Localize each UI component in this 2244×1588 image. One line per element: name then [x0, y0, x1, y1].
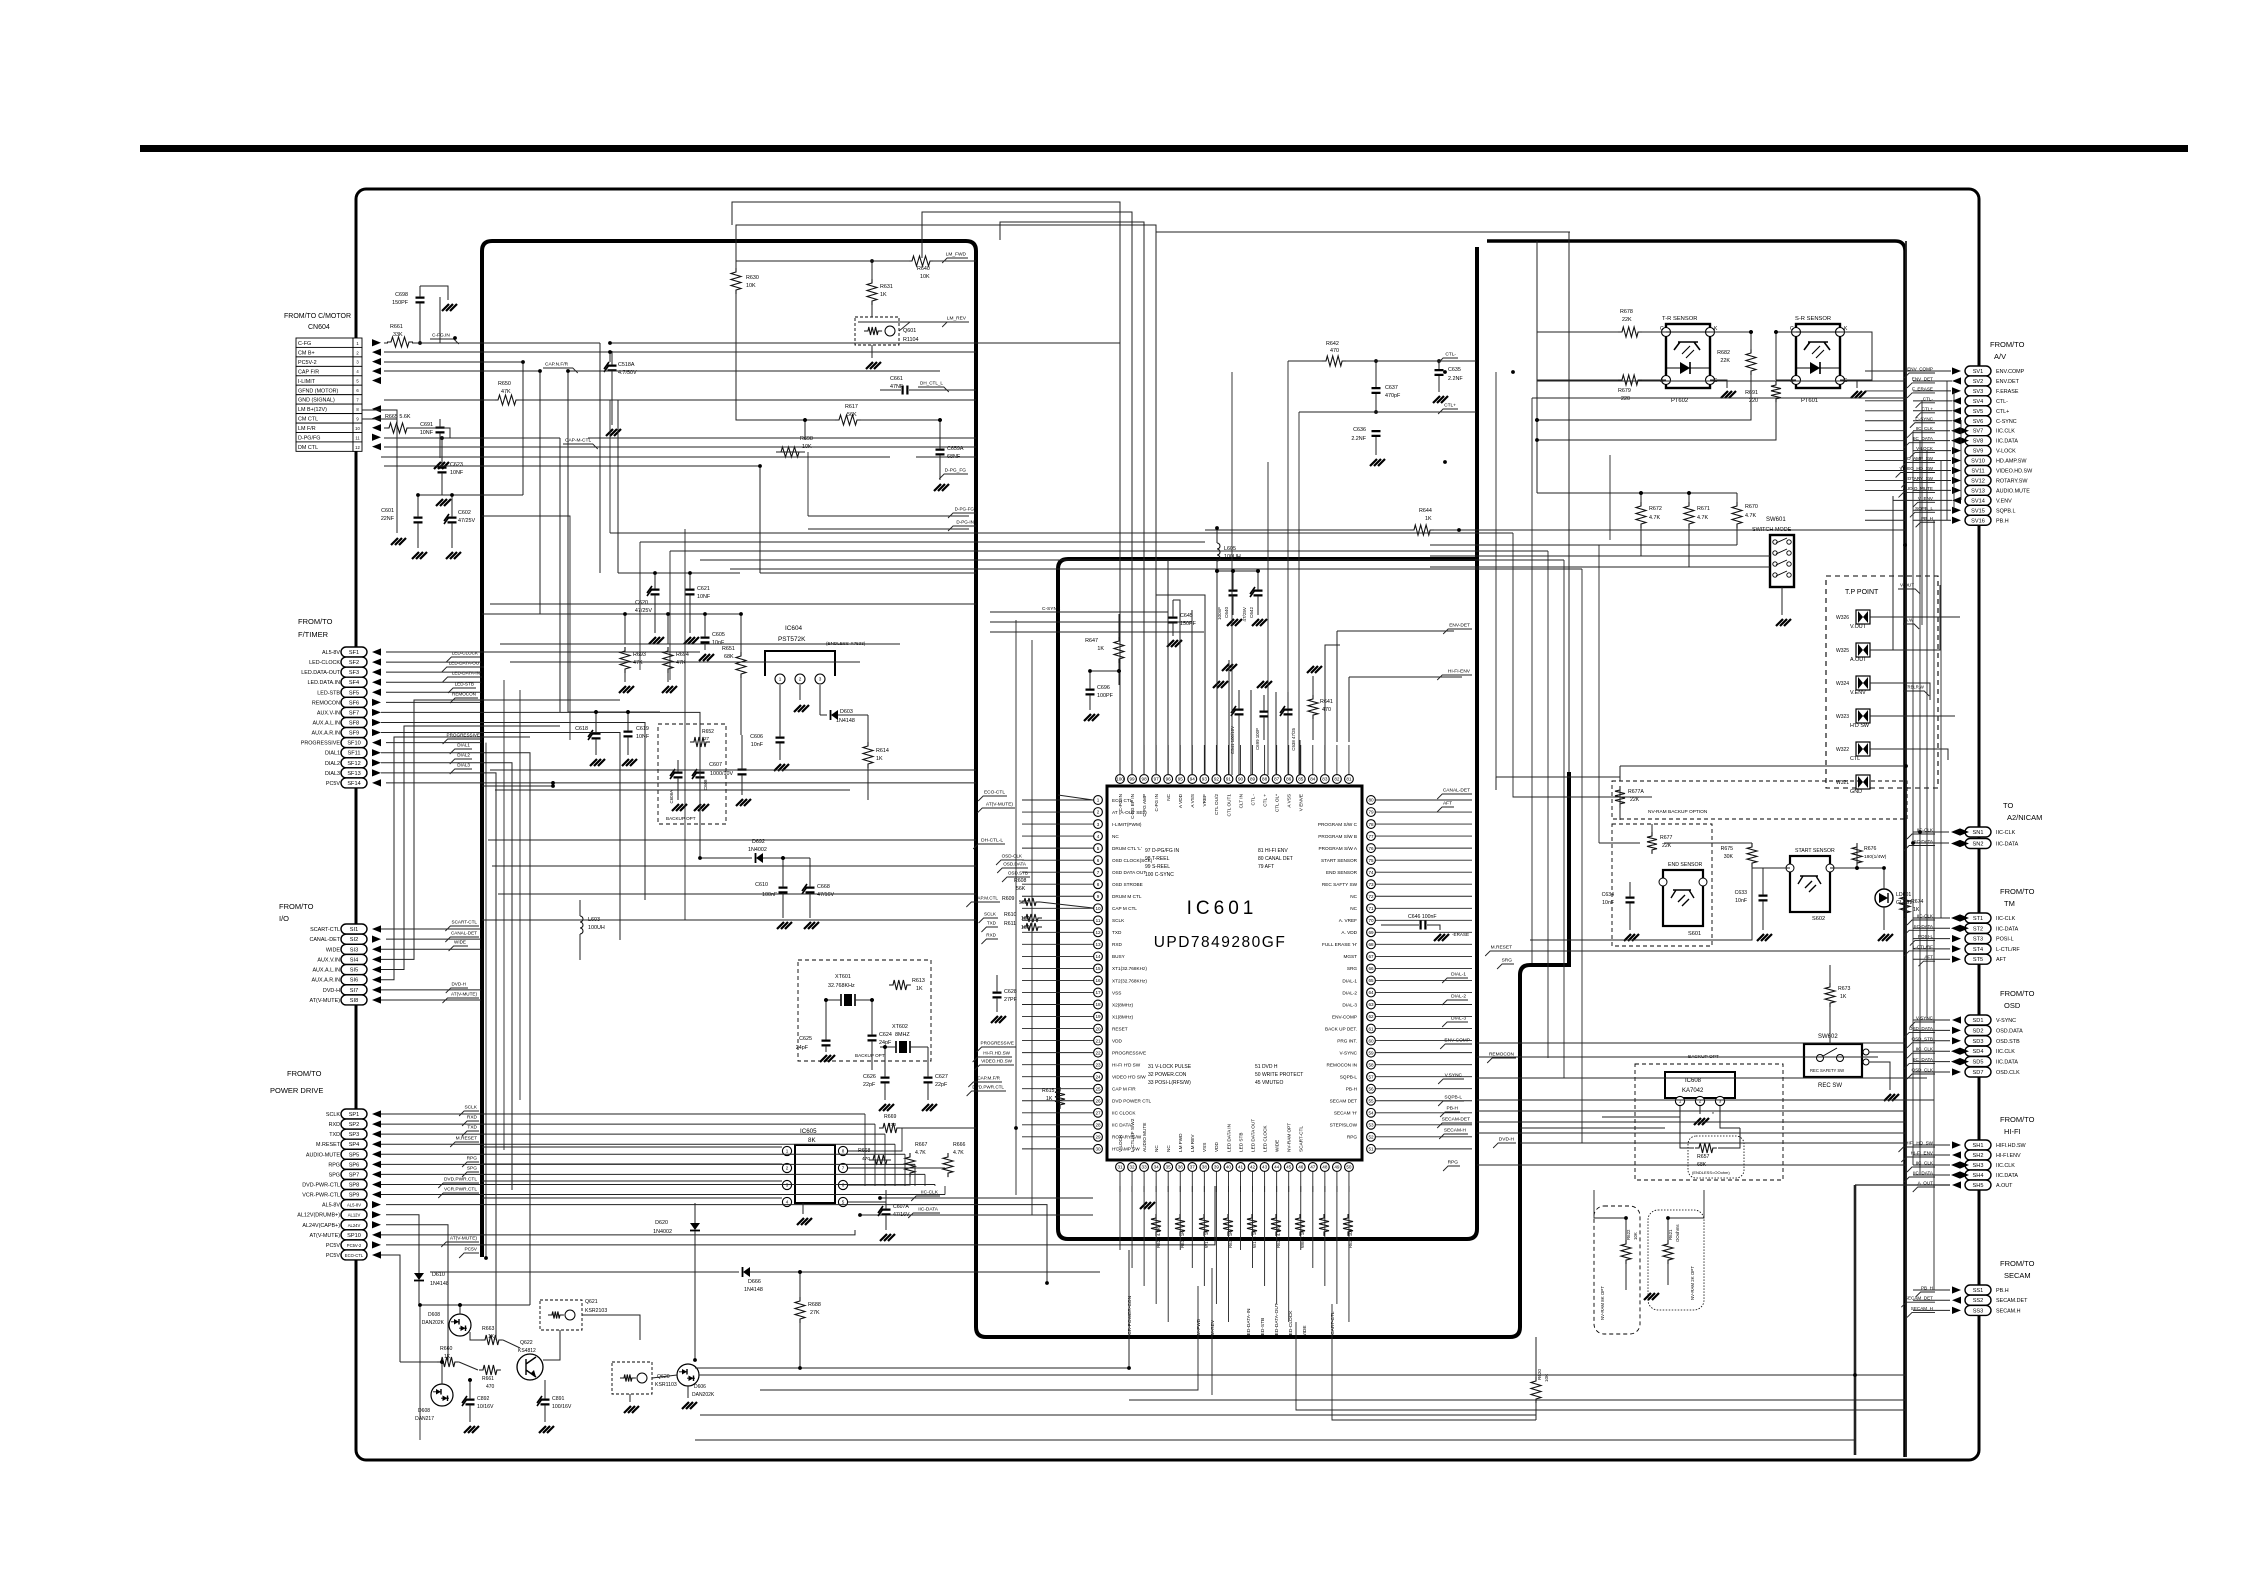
wire DH_CTL_L flag — [918, 381, 949, 393]
wire — [1267, 545, 1269, 775]
resistor R678 — [1618, 309, 1642, 337]
node junction — [608, 341, 612, 345]
svg-text:SCLK: SCLK — [326, 1112, 340, 1118]
svg-text:15: 15 — [1095, 966, 1101, 971]
resistor R665 — [385, 414, 411, 433]
node CN604 row LM F/R — [296, 423, 362, 432]
node IC601 pin 29 — [1094, 1132, 1142, 1141]
node TP4 — [1836, 709, 1870, 729]
svg-text:C624: C624 — [879, 1032, 892, 1038]
wire — [1348, 745, 1350, 774]
resistor R679 — [1618, 375, 1642, 402]
node connector SF6 — [312, 697, 367, 707]
wire OSD.CLK flag — [996, 854, 1024, 866]
svg-text:AL5-8V: AL5-8V — [322, 1203, 340, 1209]
svg-text:R673: R673 — [1838, 986, 1851, 992]
node IC601 pin 87 — [1272, 775, 1281, 812]
capacitor C620 — [635, 573, 664, 644]
wire — [381, 948, 481, 950]
wire — [1022, 1004, 1093, 1006]
wire — [1477, 1077, 1927, 1079]
wire — [1252, 745, 1254, 774]
svg-text:C661: C661 — [890, 376, 903, 382]
svg-text:D608: D608 — [428, 1312, 440, 1318]
wire flag — [1913, 496, 1935, 508]
svg-text:AUX.V.IN: AUX.V.IN — [317, 957, 340, 963]
wire SP arrow — [372, 1251, 381, 1258]
svg-text:DVD-PWR-CTL: DVD-PWR-CTL — [302, 1182, 340, 1188]
capacitor C608 — [692, 752, 709, 811]
svg-text:7: 7 — [1097, 870, 1100, 875]
node TP6 — [1836, 775, 1870, 795]
svg-text:35: 35 — [1166, 1165, 1172, 1170]
node IC601 pin 81 — [1345, 775, 1354, 784]
svg-text:CM CTL: CM CTL — [298, 417, 318, 423]
svg-text:RXD: RXD — [329, 1122, 340, 1128]
wire — [381, 999, 481, 1001]
svg-text:BACKUP OPT: BACKUP OPT — [666, 816, 696, 821]
node connector SV1 — [1965, 366, 2025, 376]
wire SP arrow — [372, 1181, 381, 1188]
svg-text:H'D SW: H'D SW — [1850, 723, 1870, 729]
node IC601 pin 8 — [1094, 880, 1143, 889]
svg-text:73: 73 — [1368, 882, 1374, 887]
svg-text:SD7: SD7 — [1973, 1070, 1984, 1076]
resistor R621 — [1663, 1218, 1680, 1285]
wire — [1477, 1164, 1906, 1166]
wire — [1913, 380, 1952, 382]
wire TXD flag — [981, 921, 998, 933]
node S-R SENSOR PT601 — [1790, 316, 1848, 404]
svg-text:SV13: SV13 — [1971, 488, 1985, 494]
resistor R698 — [777, 420, 813, 457]
svg-text:REC SAFETY SW: REC SAFETY SW — [1810, 1068, 1844, 1073]
svg-text:81: 81 — [1346, 777, 1352, 782]
wire bottom riser label — [1246, 1308, 1252, 1338]
svg-text:SF4: SF4 — [349, 680, 359, 686]
node connector SF11 — [325, 748, 367, 758]
svg-text:SF12: SF12 — [347, 761, 360, 767]
resistor R608 — [1014, 878, 1027, 892]
node IC601 pin 18 — [1094, 1000, 1134, 1009]
wire — [934, 1184, 936, 1186]
wire flag — [1907, 1036, 1935, 1048]
resistor R661b — [479, 1365, 501, 1390]
svg-text:ST4: ST4 — [1973, 947, 1983, 953]
svg-text:W326: W326 — [1836, 615, 1849, 621]
svg-text:R688: R688 — [808, 1302, 821, 1308]
svg-text:SF2: SF2 — [349, 660, 359, 666]
wire flag — [1910, 1016, 1935, 1028]
svg-text:MGST: MGST — [1343, 954, 1357, 959]
node junction — [803, 418, 807, 422]
svg-text:LED DATA IN: LED DATA IN — [1226, 1124, 1231, 1152]
svg-text:A VSS: A VSS — [1190, 794, 1195, 808]
svg-text:AUX.A.L.IN: AUX.A.L.IN — [312, 968, 340, 974]
node IC601 pin 89 — [1248, 775, 1257, 806]
svg-text:VSS: VSS — [1112, 990, 1121, 995]
capacitor C621 — [618, 571, 740, 644]
svg-text:SF13: SF13 — [347, 771, 360, 777]
wire — [1376, 1064, 1472, 1066]
node junction — [418, 1303, 422, 1307]
diode D603 — [820, 709, 868, 724]
wire — [1926, 450, 1928, 1020]
svg-text:RPG: RPG — [1448, 1160, 1459, 1166]
wire — [498, 893, 976, 895]
capacitor C607A — [878, 1190, 910, 1241]
wire CN604 arrow — [372, 405, 381, 412]
wire — [381, 456, 890, 458]
svg-text:HI-FI.ENV: HI-FI.ENV — [1996, 1153, 2021, 1159]
node connector SI3 — [326, 944, 367, 954]
wire — [1913, 958, 1950, 960]
resistor R667 — [905, 1142, 928, 1177]
wire — [1179, 745, 1181, 774]
resistor R632 — [1175, 1214, 1185, 1248]
svg-text:R672: R672 — [1649, 506, 1662, 512]
node IC601 pin 53 — [1330, 1120, 1376, 1129]
resistor R677A — [1615, 786, 1644, 808]
svg-text:47: 47 — [1310, 1165, 1316, 1170]
wire HI-FI.ENV flag — [1437, 669, 1472, 681]
capacitor C607 — [709, 735, 751, 806]
node junction — [1904, 764, 1908, 768]
svg-text:ST3: ST3 — [1973, 937, 1983, 943]
svg-text:SP5: SP5 — [349, 1152, 360, 1158]
node IC601 pin 93 — [1200, 775, 1209, 807]
wire CANAL DET right flag — [1437, 788, 1472, 813]
wire — [1913, 1029, 1950, 1031]
svg-text:SV3: SV3 — [1973, 389, 1984, 395]
node IC601 pin 3 — [1094, 820, 1142, 829]
svg-text:CTL: CTL — [1850, 756, 1860, 762]
svg-text:AUDIO-MUTE: AUDIO-MUTE — [306, 1152, 341, 1158]
svg-text:SF8: SF8 — [349, 720, 359, 726]
svg-text:D606: D606 — [694, 1384, 706, 1390]
wire — [1865, 450, 1906, 452]
svg-text:AL24V(CAPB+): AL24V(CAPB+) — [302, 1223, 340, 1229]
wire — [568, 370, 940, 372]
svg-text:6: 6 — [842, 1183, 845, 1188]
svg-text:R657: R657 — [1697, 1154, 1710, 1160]
svg-text:1K: 1K — [1913, 907, 1920, 913]
transistor Q601 — [855, 305, 918, 369]
svg-text:CTL -: CTL - — [1250, 794, 1255, 806]
wire — [1477, 1099, 1934, 1101]
wire — [1336, 1172, 1338, 1192]
wire — [1581, 569, 1583, 1143]
node IC601 pin 65 — [1342, 976, 1375, 985]
wire REMOCON flag — [1487, 1052, 1516, 1064]
svg-text:47/16V: 47/16V — [893, 1212, 910, 1218]
svg-text:62: 62 — [1368, 1014, 1374, 1019]
svg-text:OSD.DATA: OSD.DATA — [1996, 1028, 2023, 1034]
svg-text:LM REV: LM REV — [1190, 1134, 1195, 1152]
svg-text:STEP/SLOW: STEP/SLOW — [1330, 1123, 1358, 1128]
wire — [874, 1124, 876, 1186]
node junction — [739, 612, 743, 616]
svg-text:R679: R679 — [1618, 388, 1631, 394]
wire — [1325, 645, 1340, 775]
svg-text:PROGRAM S/W A: PROGRAM S/W A — [1318, 846, 1357, 851]
svg-text:TXD: TXD — [987, 921, 997, 926]
wire DVD.PWR.CTL flag — [967, 1085, 1006, 1097]
svg-text:WIDE: WIDE — [1302, 1325, 1308, 1338]
svg-text:I-LIMIT: I-LIMIT — [298, 379, 316, 385]
svg-text:10NF: 10NF — [697, 594, 711, 600]
capacitor C646 — [1381, 914, 1469, 941]
wire — [700, 1414, 1536, 1416]
svg-text:SD2: SD2 — [1973, 1028, 1984, 1034]
wire — [1156, 595, 1205, 775]
wire — [1022, 835, 1093, 837]
wire — [610, 532, 1513, 534]
svg-text:PC5V: PC5V — [464, 1247, 477, 1253]
node END SENSOR dashed — [1612, 824, 1712, 946]
wire — [1892, 496, 1894, 650]
svg-text:4.7K: 4.7K — [915, 1150, 926, 1156]
wire — [944, 1186, 946, 1195]
svg-text:TRBLR.W: TRBLR.W — [1905, 685, 1924, 690]
svg-text:3: 3 — [1719, 1099, 1722, 1104]
node IC601 pin 47 — [1308, 1163, 1317, 1172]
wire — [1228, 660, 1230, 775]
node junction — [453, 336, 457, 340]
svg-text:Q621: Q621 — [585, 1299, 598, 1305]
svg-text:28: 28 — [1095, 1123, 1101, 1128]
svg-text:SD4: SD4 — [1973, 1049, 1984, 1055]
diode D608 a — [420, 1303, 530, 1336]
svg-text:150PF: 150PF — [392, 300, 409, 306]
wire flag — [1898, 486, 1935, 498]
svg-text:2: 2 — [1699, 1099, 1702, 1104]
node IC601 pin 77 — [1318, 832, 1375, 841]
wire SP arrow — [372, 1151, 381, 1158]
node IC601 pin 60 — [1337, 1036, 1375, 1045]
svg-text:PB.H: PB.H — [1996, 1288, 2009, 1294]
node junction — [1567, 963, 1571, 967]
svg-text:4: 4 — [1097, 834, 1100, 839]
svg-text:SP2: SP2 — [349, 1122, 360, 1128]
svg-text:C691: C691 — [420, 422, 433, 428]
svg-text:LM_FWD: LM_FWD — [946, 252, 967, 258]
wire — [1913, 430, 1950, 432]
node junction — [938, 418, 942, 422]
node connector SI2 — [309, 934, 367, 944]
node IC601 pin 69 — [1341, 928, 1375, 937]
svg-text:4.7K: 4.7K — [953, 1150, 964, 1156]
wire SF arrow — [372, 669, 381, 676]
svg-text:FROM/TO: FROM/TO — [1990, 340, 2025, 349]
wire SW601 in — [1430, 542, 1770, 567]
svg-text:36: 36 — [1178, 1165, 1184, 1170]
resistor W664 — [1295, 1214, 1305, 1248]
svg-text:22K: 22K — [1662, 843, 1672, 849]
svg-text:43: 43 — [1262, 1165, 1268, 1170]
svg-text:1N4002: 1N4002 — [653, 1229, 672, 1235]
resistor R693 — [619, 614, 646, 693]
svg-text:1N4002: 1N4002 — [748, 847, 767, 853]
svg-text:TM: TM — [2004, 899, 2015, 908]
wire — [1376, 1136, 1472, 1138]
wire — [381, 1113, 865, 1115]
wire SF arrow — [372, 749, 381, 756]
wire bottom riser label — [1127, 1295, 1133, 1338]
node TP2 — [1836, 643, 1870, 663]
wire — [1156, 231, 1570, 233]
wire — [1946, 381, 1948, 520]
wire SF right flags — [442, 651, 484, 775]
resistor R615 — [1042, 1087, 1065, 1109]
svg-text:AL5-8V: AL5-8V — [347, 1203, 361, 1208]
node IC601 pin 17 — [1094, 988, 1122, 997]
svg-text:C621: C621 — [697, 586, 710, 592]
svg-text:C625: C625 — [799, 1036, 812, 1042]
svg-text:SI4: SI4 — [350, 957, 358, 963]
wire — [482, 516, 570, 740]
wire flag — [1910, 506, 1935, 518]
wire bottom riser label — [1210, 1319, 1216, 1338]
wire flag — [1901, 1296, 1935, 1308]
wire — [1913, 390, 1951, 392]
node IC601 pin 54 — [1334, 1108, 1376, 1117]
node connector SV7 — [1965, 426, 2015, 436]
wire — [1022, 1088, 1093, 1090]
resistor R691 — [1745, 381, 1781, 404]
svg-text:30: 30 — [1095, 1147, 1101, 1152]
wire — [617, 400, 619, 573]
wire DH.CTL.L flag — [973, 838, 1005, 850]
wire — [1477, 1121, 1906, 1123]
node junction — [758, 464, 762, 468]
svg-text:17: 17 — [1095, 990, 1101, 995]
svg-text:OSD: OSD — [2004, 1001, 2021, 1010]
svg-text:SS3: SS3 — [1973, 1308, 1984, 1314]
svg-text:54: 54 — [1368, 1110, 1374, 1115]
node IC601 pin 92 — [1212, 775, 1221, 815]
wire — [381, 763, 512, 1190]
svg-text:SV4: SV4 — [1973, 399, 1984, 405]
wire — [1495, 777, 1497, 790]
wire flag — [1913, 1181, 1935, 1193]
svg-text:C-SYNC: C-SYNC — [1042, 606, 1061, 612]
svg-text:10nF: 10nF — [1602, 900, 1614, 906]
node IC601 pin 70 — [1339, 916, 1376, 925]
node connector SV9 — [1965, 446, 2016, 456]
svg-text:*: * — [1712, 1112, 1714, 1118]
svg-text:NV-RAM 8K OPT: NV-RAM 8K OPT — [1600, 1286, 1605, 1320]
svg-text:23: 23 — [1095, 1062, 1101, 1067]
resistor R641 — [1307, 666, 1333, 740]
wire — [482, 529, 685, 920]
svg-text:V-SYNC: V-SYNC — [1340, 1050, 1358, 1055]
svg-text:C636: C636 — [1353, 427, 1366, 433]
wire — [381, 1163, 915, 1165]
wire — [384, 466, 760, 573]
svg-text:10NF: 10NF — [420, 430, 434, 436]
svg-text:IIC-DATA: IIC-DATA — [1996, 926, 2019, 932]
wire — [492, 865, 976, 867]
wire — [1376, 1040, 1472, 1042]
svg-text:R622: R622 — [1626, 1229, 1631, 1240]
svg-text:KSR2103: KSR2103 — [585, 1308, 607, 1314]
node IC601 pin 50 — [1345, 1163, 1354, 1172]
wire flag — [1907, 1068, 1935, 1080]
wire D-PG_FG flag — [939, 468, 968, 480]
svg-text:REMOCON IN: REMOCON IN — [1327, 1062, 1357, 1067]
wire — [1191, 1172, 1193, 1192]
svg-text:ENV.DET: ENV.DET — [1996, 379, 2020, 385]
wire — [916, 456, 976, 458]
node IC601 pin 28 — [1094, 1120, 1132, 1129]
svg-text:CM B+: CM B+ — [298, 350, 315, 356]
wire — [384, 399, 495, 401]
wire — [760, 1286, 1198, 1390]
svg-text:85: 85 — [1298, 777, 1304, 782]
svg-text:C891: C891 — [552, 1396, 565, 1402]
wire — [1240, 1186, 1242, 1250]
svg-text:R1104: R1104 — [903, 337, 918, 343]
wire — [1537, 380, 1906, 382]
svg-text:24pF: 24pF — [879, 1040, 892, 1046]
svg-text:CAP.M.F/R: CAP.M.F/R — [977, 1076, 1000, 1081]
wire — [1376, 859, 1472, 861]
wire CN604 arrow — [372, 377, 381, 384]
wire OSD.DATA flag — [997, 862, 1028, 874]
node IC601 note left — [1145, 848, 1180, 878]
node connector SI8 — [310, 995, 367, 1005]
svg-text:76: 76 — [1368, 846, 1374, 851]
wire — [1191, 1186, 1193, 1268]
node IC601 pin 11 — [1094, 916, 1126, 925]
node connector SV5 — [1965, 406, 2009, 416]
wire — [450, 437, 482, 439]
svg-text:R694: R694 — [676, 652, 689, 658]
wire — [760, 572, 976, 574]
node IC601 pin 64 — [1342, 988, 1375, 997]
node SECAM title — [2000, 1259, 2035, 1280]
wire — [1376, 931, 1472, 933]
wire — [1191, 745, 1193, 774]
svg-text:IIC.CLK: IIC.CLK — [1996, 1049, 2015, 1055]
node IC601 pin 86 — [1284, 775, 1293, 808]
svg-text:C-FG: C-FG — [298, 341, 311, 347]
svg-text:W324: W324 — [1836, 681, 1849, 687]
svg-text:2.2NF: 2.2NF — [1448, 376, 1463, 382]
svg-text:LED-STB: LED-STB — [317, 690, 340, 696]
wire — [1022, 1076, 1093, 1078]
svg-text:CTL +: CTL + — [1262, 794, 1267, 807]
wire bottom riser label — [1196, 1318, 1202, 1338]
svg-text:84: 84 — [1310, 777, 1316, 782]
wire — [1376, 1100, 1472, 1102]
svg-text:59: 59 — [1368, 1050, 1374, 1055]
svg-text:89: 89 — [1250, 777, 1256, 782]
svg-text:R698: R698 — [800, 436, 813, 442]
svg-text:47NF: 47NF — [890, 384, 904, 390]
wire arrow — [1952, 467, 1961, 474]
node IC601 pin 80 — [1367, 796, 1376, 805]
resistor W177 — [1199, 1214, 1209, 1248]
node IC601 pin 78 — [1318, 820, 1375, 829]
node junction — [623, 612, 627, 616]
svg-text:SV12: SV12 — [1971, 478, 1985, 484]
svg-text:DH-CTL-L: DH-CTL-L — [981, 838, 1003, 844]
wire SP arrow — [372, 1120, 381, 1127]
svg-text:LED-STB: LED-STB — [1260, 1318, 1266, 1338]
op-amp U IC604 — [765, 625, 866, 735]
